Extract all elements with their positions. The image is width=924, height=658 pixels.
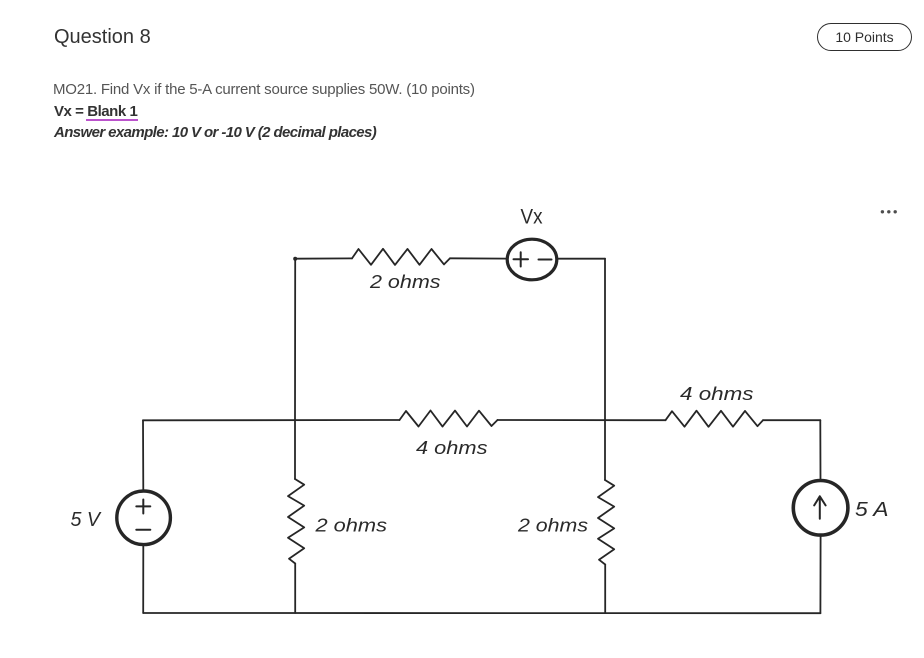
answer example line: [54, 124, 376, 141]
points pill: [817, 23, 912, 51]
minus sign of V1: [136, 529, 150, 531]
plus sign of Vx source: [514, 252, 529, 266]
wire left vertical upper (x=295): [294, 259, 296, 420]
svg-text:5 A: 5 A: [855, 499, 889, 521]
wire right branch upper (x=820): [819, 420, 821, 480]
svg-text:4 ohms: 4 ohms: [680, 383, 754, 404]
wire mid-right branch lower: [604, 565, 606, 614]
svg-text:2 ohms: 2 ohms: [517, 515, 588, 536]
wire right branch lower: [819, 535, 821, 613]
wire left branch upper (x=143): [142, 420, 144, 491]
question title: [54, 26, 151, 49]
resistor R5 2 ohms (right vertical): [598, 480, 614, 565]
minus sign of Vx source: [539, 259, 552, 261]
answer blank line: [86, 119, 138, 121]
voltage source Vx (dependent/source ellipse): [507, 239, 557, 280]
wire middle horizontal right: [763, 419, 820, 421]
wire middle horizontal left: [143, 419, 400, 421]
menu dots: [881, 210, 897, 213]
wire left branch lower: [142, 545, 144, 613]
node A junction dot: [293, 257, 297, 261]
svg-text:Vx: Vx: [521, 206, 543, 229]
svg-text:4 ohms: 4 ohms: [416, 437, 488, 458]
resistor R3 4 ohms (right): [666, 411, 764, 427]
resistor R2 4 ohms (middle): [400, 411, 498, 427]
wire top-left horizontal: [295, 257, 352, 259]
voltage source V1 5V: [117, 491, 171, 545]
svg-text:5 V: 5 V: [71, 509, 102, 531]
wire mid-left branch (x=295) upper: [294, 420, 296, 479]
plus sign of V1: [136, 500, 150, 514]
svg-text:2 ohms: 2 ohms: [314, 515, 387, 536]
wire right vertical upper (x=605): [604, 259, 606, 420]
wire mid-left branch lower: [294, 564, 296, 614]
wire Vx to right corner: [557, 258, 605, 260]
prompt line: [53, 81, 475, 98]
current source I1 5A: [793, 481, 848, 536]
resistor R4 2 ohms (left vertical): [288, 479, 304, 564]
arrow of current source: [814, 496, 825, 519]
wire bottom horizontal: [143, 612, 820, 614]
svg-text:2 ohms: 2 ohms: [369, 271, 441, 292]
wire to Vx source: [450, 257, 508, 259]
wire mid-right branch (x=605) upper: [604, 420, 606, 480]
wire middle horizontal center: [498, 419, 666, 421]
resistor R1 2 ohms (top): [352, 249, 450, 265]
